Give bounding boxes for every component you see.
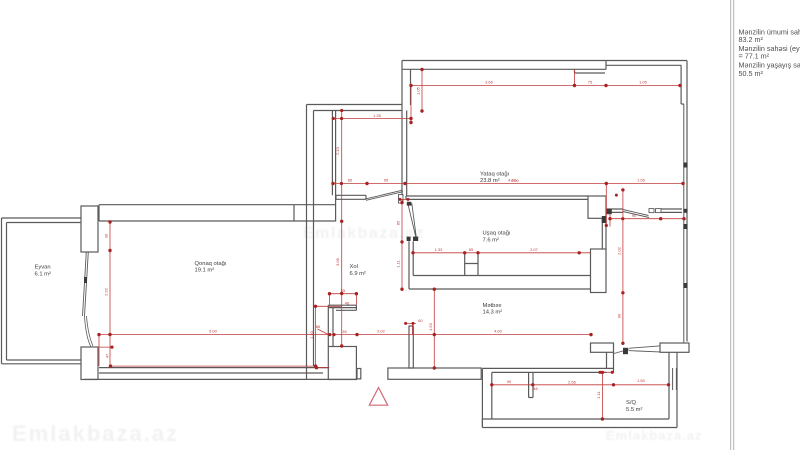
svg-text:1.05: 1.05 [639,80,648,85]
leader: 86 label [318,329,329,335]
svg-text:30: 30 [104,233,109,238]
wall: kitchen door stub [409,326,413,368]
panel divider lines [731,0,734,450]
svg-text:35: 35 [342,329,347,334]
door leaf: step door [366,190,403,200]
pillar: living bottom-left [81,347,98,380]
svg-text:Uşaq otağı: Uşaq otağı [483,231,511,237]
door leaf: corridor door [623,210,649,218]
wall: usaq bottom wall [409,276,591,290]
svg-text:47: 47 [105,353,110,358]
wall: corridor divider right [661,209,682,212]
dim: living left vertical [109,222,111,366]
wall: top step joint at x606 [605,61,607,70]
wall: bathroom right wall [669,352,677,427]
dim: window sill vertical [574,70,576,86]
red dimension lines [99,70,684,420]
door arc: balcony door [85,316,94,347]
dim: living bottom wall horizontal [111,365,316,367]
pillar: living top-left [81,206,98,252]
svg-text:S/Q: S/Q [626,400,636,406]
wall: bedroom top inner right [606,64,682,66]
dim: step horizontal [333,118,411,120]
wall: bedroom top inner left [402,68,606,70]
svg-text:75: 75 [588,80,593,85]
svg-text:3.66: 3.66 [485,80,494,85]
svg-text:Eyvan: Eyvan [35,265,51,271]
wall: right outer [681,61,687,342]
svg-text:60: 60 [418,318,423,323]
svg-text:Yataq otağı: Yataq otağı [480,171,510,177]
svg-text:4.00: 4.00 [511,178,520,183]
dim: bathroom horizontal [492,384,669,386]
wall: corridor divider left [606,209,623,212]
wall: living bottom [84,368,357,380]
wall: thin step line [332,111,335,222]
svg-text:Mətbəx: Mətbəx [483,303,502,309]
wall: corridor bottom left band [591,343,614,352]
block: hall entrance [328,347,356,380]
dim: entrance small horizontal [316,305,342,307]
svg-text:2.02: 2.02 [616,246,621,255]
dim: corridor door horizontal [610,214,684,227]
svg-text:19.1 m²: 19.1 m² [195,268,215,274]
door leaf: bathroom door [614,346,660,354]
dark tick: window frame top [602,216,606,223]
svg-text:85: 85 [348,178,353,183]
dim: usaq top small [400,198,408,200]
red dots [97,68,685,421]
block2 kitchen right [591,249,607,293]
svg-text:1.50: 1.50 [637,378,646,383]
dim: usaq left vertical [401,200,403,290]
dim: usaq bottom horizontal [413,252,591,254]
dim: bathroom top mini [600,371,612,373]
dim: pillar bracket [99,335,112,367]
panel text [739,27,800,78]
svg-text:46: 46 [533,386,538,391]
window strip below block1 [602,218,606,249]
svg-text:1.05: 1.05 [637,178,646,183]
wall: hall top wall [336,195,366,199]
wall: hall L-wall band vertical [328,308,333,347]
svg-text:1.40: 1.40 [309,330,314,339]
svg-text:2.56: 2.56 [568,379,577,384]
dim: main bottom horizontal [99,334,591,336]
wall: bathroom top wall [482,368,613,372]
svg-text:86: 86 [316,324,321,329]
svg-text:90: 90 [507,379,512,384]
dim: bedroom top-left vertical b [410,86,412,123]
wall: bathroom stub [529,372,533,397]
dark tick: window mullion 3 [683,283,687,288]
svg-text:1.11: 1.11 [596,390,601,398]
step: hall entrance [357,369,361,379]
svg-text:2.02: 2.02 [377,329,386,334]
svg-text:83.2 m²: 83.2 m² [739,35,764,44]
svg-text:95: 95 [384,178,389,183]
wall: bedroom left upper vertical [402,61,411,111]
svg-text:2.10: 2.10 [335,146,340,155]
room labels [35,171,643,412]
dim: hall left vertical [316,306,330,367]
dark tick: divider junction [683,209,687,213]
window: bathroom right [673,368,677,390]
svg-text:55: 55 [341,288,346,293]
wall: bedroom left lower vertical [402,111,407,197]
wall: hall bottom band [388,368,481,379]
wall: bathroom top-left connector [607,352,614,372]
dim: bedroom top-left vertical a [421,70,423,112]
svg-text:85: 85 [469,247,474,252]
dim: entrance rect [330,294,357,306]
wall: bedroom top outer [402,60,687,62]
svg-text:Qonaq otağı: Qonaq otağı [195,261,227,267]
dark blob: bathroom door hinge [623,348,628,354]
dim: corridor long vertical [622,190,624,343]
svg-text:3.06: 3.06 [335,257,340,266]
triangle: entrance mark [369,388,387,406]
svg-text:5.00: 5.00 [209,329,218,334]
door leaf: usaq door [408,203,416,237]
dark cap: usaq door [407,237,411,241]
door frame: corridor door [649,209,654,213]
dim: hall long vertical [341,110,343,346]
svg-text:50.5 m²: 50.5 m² [739,69,764,78]
svg-text:1.35: 1.35 [373,113,382,118]
door frame: step door [399,195,404,204]
wall: window sill bedroom top [575,69,606,73]
svg-text:14.3 m²: 14.3 m² [483,310,503,316]
wall: bedroom-usaq divider [406,196,588,199]
wall: step top wall [307,105,403,111]
svg-text:2.32: 2.32 [104,287,109,296]
svg-text:1.11: 1.11 [396,259,401,267]
svg-text:2.07: 2.07 [530,247,539,252]
svg-text:96: 96 [616,313,621,318]
svg-text:23.8 m²: 23.8 m² [480,178,500,184]
dark blob: balcony door handle [84,277,87,283]
wall: bathroom left wall [482,368,491,427]
dark tick: window mullion 2 [683,224,687,229]
svg-text:90: 90 [632,213,637,218]
window: right outer glazing [683,104,685,343]
dim: kitchen door [406,323,416,335]
dim: bathroom right vertical [601,372,603,419]
dark tick: window mullion 1 [683,163,687,168]
dim: bedroom top horizontal [411,85,680,87]
dim: kitchen vertical [433,289,435,368]
svg-text:6.1 m²: 6.1 m² [35,272,51,278]
svg-text:6.9 m²: 6.9 m² [350,271,366,277]
column in usaq room [465,254,478,276]
balcony outline [2,218,82,364]
svg-text:1.33: 1.33 [435,247,444,252]
wall: hall L-wall [328,305,356,310]
dim: corridor left vertical [605,184,607,226]
wall: living/hall divider vertical band [307,105,314,380]
svg-text:5.5 m²: 5.5 m² [626,407,642,413]
wall: living top band [99,205,335,221]
svg-text:Emlakbaza.az: Emlakbaza.az [12,421,179,446]
svg-text:= 77.1 m²: = 77.1 m² [739,52,770,61]
wall: usaq left wall [409,241,413,289]
svg-text:46: 46 [345,301,350,306]
svg-text:Emlakbaza.az: Emlakbaza.az [606,428,703,443]
svg-text:1.05: 1.05 [416,86,421,95]
wall: bathroom bottom band [482,419,677,428]
wall: corridor bottom right band [660,343,689,352]
door leaf: balcony door [83,252,89,316]
svg-text:1.53: 1.53 [428,322,433,331]
svg-text:Xol: Xol [350,264,358,270]
svg-text:85: 85 [396,220,401,225]
svg-text:7.6 m²: 7.6 m² [483,238,499,244]
svg-text:4.60: 4.60 [494,329,503,334]
dark blob: usaq door hinge [407,202,412,206]
pillar block1 right of usaq [588,196,606,218]
dim: bedroom bottom horizontal [333,183,683,185]
red dim labels [104,80,648,399]
